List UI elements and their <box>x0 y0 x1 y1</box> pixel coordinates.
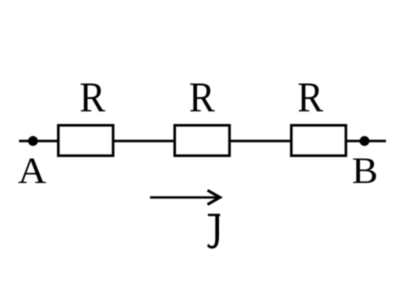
resistor R2 <box>175 125 230 155</box>
resistor R1 <box>58 125 113 155</box>
svg-text:A: A <box>18 151 47 192</box>
wire main horizontal <box>19 140 386 142</box>
svg-text:R: R <box>80 76 106 122</box>
svg-text:R: R <box>297 76 323 122</box>
node B terminal dot <box>360 136 370 146</box>
current arrow head <box>208 190 221 204</box>
resistor R3 <box>291 125 346 155</box>
label J (custom path with descender hook) <box>207 214 220 249</box>
node A terminal dot <box>28 136 38 146</box>
svg-text:R: R <box>189 76 215 122</box>
svg-text:B: B <box>352 150 378 191</box>
current arrow shaft <box>150 196 219 198</box>
